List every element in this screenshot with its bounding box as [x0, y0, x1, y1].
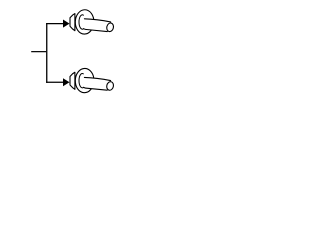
retaining ring 2: [79, 73, 83, 87]
arrowhead top: [63, 20, 70, 28]
rod top edge 1: [84, 19, 110, 22]
washer disc 2: [75, 68, 94, 93]
wire: input stub: [31, 51, 46, 53]
nut 2: [70, 72, 75, 89]
washer disc 1: [75, 9, 94, 34]
arrowhead bottom: [63, 78, 70, 86]
rod bottom edge 2: [84, 87, 108, 90]
rod end cap 2: [106, 81, 115, 91]
rod end cap 1: [106, 22, 115, 32]
rod body 2: [84, 78, 111, 91]
fastener symbol 2 (bottom): [70, 68, 114, 93]
rod body 1: [84, 19, 111, 32]
background: [0, 0, 150, 110]
wire: top branch: [46, 23, 63, 25]
wire: bottom branch: [46, 81, 63, 83]
wire: vertical trunk: [46, 23, 48, 83]
nut 1: [70, 14, 75, 31]
rod top edge 2: [84, 77, 110, 80]
fastener symbol 1 (top): [70, 9, 114, 34]
rod bottom edge 1: [84, 29, 108, 32]
retaining ring 1: [79, 15, 83, 29]
